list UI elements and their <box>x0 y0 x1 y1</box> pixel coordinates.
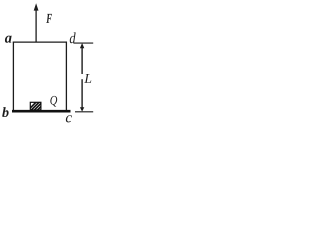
wire: top edge a-d of frame <box>13 41 67 43</box>
dimension line vertical lower segment <box>81 79 83 107</box>
svg-text:d: d <box>69 30 75 47</box>
dimension line up arrowhead <box>80 43 84 48</box>
svg-text:c: c <box>65 110 72 125</box>
wire: right edge d-c of frame <box>65 42 67 111</box>
svg-text:F: F <box>46 11 52 26</box>
background <box>0 0 94 125</box>
svg-text:a: a <box>5 31 13 47</box>
dimension extension line bottom (from node c) <box>75 111 93 113</box>
dimension line vertical upper segment <box>81 47 83 74</box>
svg-text:Q: Q <box>50 93 58 108</box>
svg-text:L: L <box>83 71 92 86</box>
force arrow F head <box>34 3 39 10</box>
force arrow F shaft <box>35 9 37 43</box>
dimension extension line top (from node d) <box>74 42 94 44</box>
wire: left edge a-b of frame <box>12 42 14 111</box>
wire: thick bottom ground line b-c <box>12 110 71 113</box>
hatched block Q <box>26 102 48 112</box>
svg-text:b: b <box>2 106 9 121</box>
dimension line down arrowhead <box>80 107 84 111</box>
